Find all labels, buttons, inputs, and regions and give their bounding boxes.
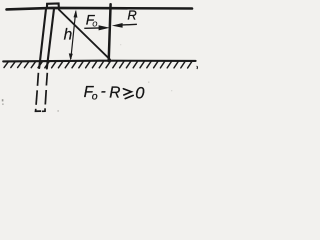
label F0 (top) — [86, 12, 98, 30]
scan specks — [2, 44, 173, 112]
pile cap — [47, 4, 59, 10]
slanted greater-or-equal sign — [123, 89, 133, 99]
reaction arrow R — [112, 23, 137, 28]
post left edge — [39, 9, 46, 68]
buried pile outline (dashed), right side — [42, 73, 48, 112]
buried pile outline (dashed), left side — [36, 73, 42, 111]
diagonal brace — [59, 10, 110, 60]
svg-text:h: h — [64, 27, 73, 44]
right vertical member — [109, 4, 111, 61]
top surface line — [7, 8, 193, 9]
svg-text:0: 0 — [135, 85, 145, 103]
force arrow F0 — [84, 25, 110, 30]
comma after ground line — [196, 66, 199, 69]
ground hatching — [4, 61, 192, 68]
svg-text:R: R — [109, 85, 120, 102]
formula F0 - R >= 0 — [84, 83, 146, 103]
svg-text:-: - — [101, 83, 106, 100]
post right edge — [47, 9, 54, 69]
svg-text:R: R — [127, 8, 136, 23]
ground line — [3, 60, 195, 63]
dimension line h — [69, 10, 78, 61]
svg-text:o: o — [92, 91, 98, 103]
